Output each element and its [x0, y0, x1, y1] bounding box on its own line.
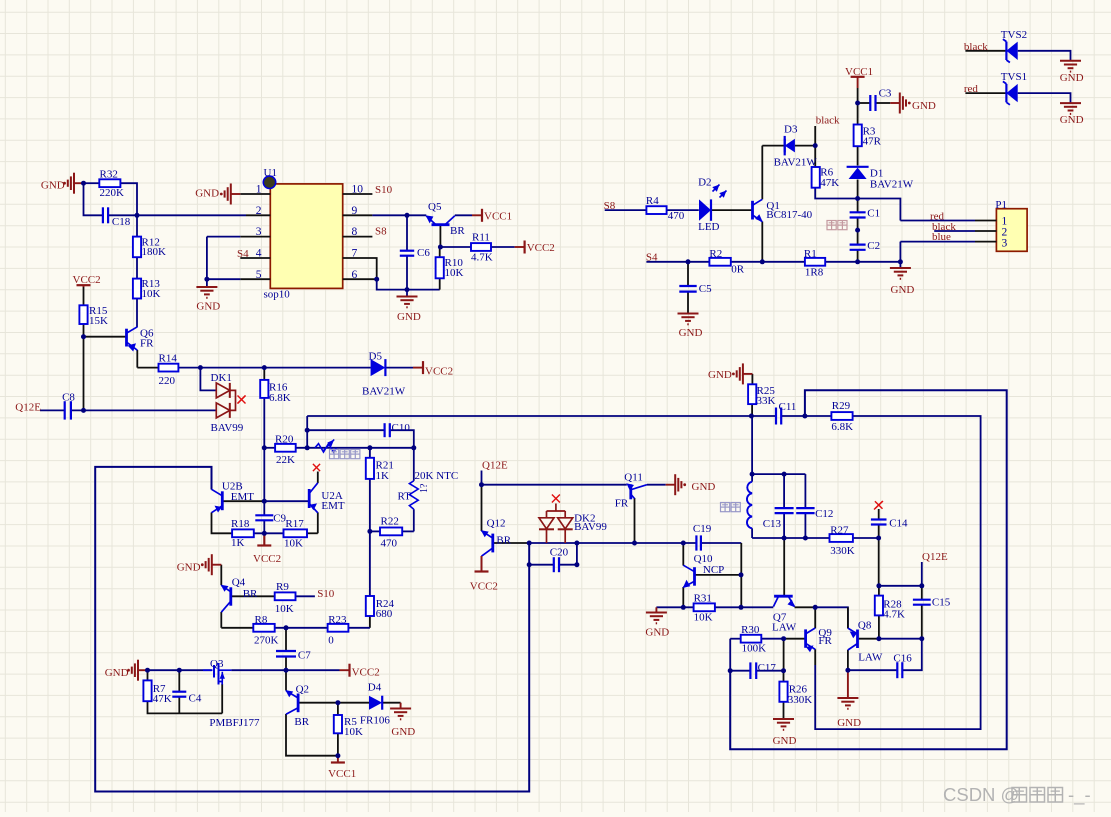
svg-text:S4: S4: [237, 248, 249, 260]
svg-text:470: 470: [381, 537, 398, 549]
svg-text:3: 3: [1002, 238, 1008, 250]
svg-text:GND: GND: [196, 301, 220, 313]
svg-text:red: red: [964, 83, 979, 95]
svg-text:C19: C19: [693, 523, 712, 535]
svg-text:0: 0: [328, 635, 334, 647]
svg-text:1K: 1K: [231, 537, 245, 549]
svg-text:R2: R2: [709, 248, 722, 260]
svg-text:GND: GND: [692, 481, 716, 493]
svg-text:GND: GND: [645, 627, 669, 639]
svg-text:C12: C12: [815, 508, 833, 520]
svg-text:D2: D2: [698, 176, 711, 188]
svg-text:BR: BR: [450, 225, 465, 237]
svg-text:Q12E: Q12E: [482, 460, 508, 472]
svg-text:180K: 180K: [142, 246, 167, 258]
svg-text:10K: 10K: [142, 288, 161, 300]
svg-text:100K: 100K: [742, 642, 767, 654]
svg-text:R17: R17: [285, 518, 304, 530]
svg-text:VCC1: VCC1: [328, 768, 356, 780]
svg-text:EMT: EMT: [321, 500, 345, 512]
svg-text:GND: GND: [397, 311, 421, 323]
svg-text:R14: R14: [159, 353, 178, 365]
svg-text:CSDN @: CSDN @: [943, 784, 1019, 805]
svg-text:R29: R29: [832, 400, 851, 412]
svg-text:sop10: sop10: [264, 289, 291, 301]
svg-text:GND: GND: [195, 188, 219, 200]
svg-text:Q12E: Q12E: [922, 551, 948, 563]
svg-text:47R: 47R: [863, 136, 882, 148]
svg-text:C11: C11: [779, 401, 797, 413]
svg-text:BR: BR: [294, 716, 309, 728]
svg-text:C4: C4: [189, 692, 202, 704]
svg-text:680: 680: [376, 608, 393, 620]
svg-text:C7: C7: [298, 650, 311, 662]
svg-text:S8: S8: [375, 225, 387, 237]
svg-text:R30: R30: [741, 624, 760, 636]
svg-text:NCP: NCP: [703, 564, 724, 576]
svg-text:220: 220: [159, 375, 176, 387]
svg-text:Q11: Q11: [624, 472, 643, 484]
svg-text:S4: S4: [646, 252, 658, 264]
svg-text:BAV21W: BAV21W: [870, 179, 914, 191]
svg-text:GND: GND: [679, 327, 703, 339]
svg-text:BC817-40: BC817-40: [766, 209, 812, 221]
svg-text:47K: 47K: [820, 177, 839, 189]
svg-text:P1: P1: [995, 199, 1007, 211]
svg-text:R1: R1: [804, 248, 817, 260]
svg-text:220K: 220K: [100, 187, 125, 199]
svg-text:FR: FR: [615, 498, 629, 510]
svg-text:C6: C6: [417, 247, 430, 259]
svg-text:10K: 10K: [275, 603, 294, 615]
svg-text:4.7K: 4.7K: [471, 251, 493, 263]
svg-text:3: 3: [256, 226, 262, 238]
svg-text:GND: GND: [1060, 114, 1084, 126]
svg-text:VCC2: VCC2: [73, 274, 101, 286]
svg-text:BAV99: BAV99: [574, 521, 607, 533]
svg-text:R11: R11: [472, 231, 490, 243]
svg-text:15K: 15K: [89, 315, 108, 327]
svg-text:20K NTC: 20K NTC: [415, 470, 459, 482]
svg-text:10K: 10K: [694, 611, 713, 623]
svg-text:2: 2: [256, 205, 262, 217]
svg-text:R9: R9: [276, 581, 289, 593]
svg-text:C2: C2: [867, 240, 880, 252]
svg-text:GND: GND: [837, 717, 861, 729]
svg-text:DK1: DK1: [211, 372, 232, 384]
svg-text:6.8K: 6.8K: [269, 392, 291, 404]
svg-text:R18: R18: [231, 518, 250, 530]
svg-text:10: 10: [352, 184, 364, 196]
svg-text:10K: 10K: [445, 267, 464, 279]
svg-text:Q4: Q4: [232, 577, 246, 589]
svg-text:C3: C3: [879, 88, 892, 100]
svg-text:GND: GND: [41, 179, 65, 191]
svg-text:9: 9: [352, 205, 358, 217]
svg-text:FR: FR: [818, 635, 832, 647]
svg-text:-_-: -_-: [1068, 784, 1091, 806]
svg-text:VCC1: VCC1: [845, 66, 873, 78]
svg-text:VCC2: VCC2: [527, 242, 555, 254]
svg-text:1?: 1?: [419, 483, 430, 493]
svg-text:LAW: LAW: [858, 652, 883, 664]
svg-text:D5: D5: [369, 351, 383, 363]
svg-text:LAW: LAW: [772, 622, 797, 634]
svg-text:470: 470: [668, 210, 685, 222]
svg-text:0R: 0R: [731, 264, 745, 276]
svg-text:VCC2: VCC2: [352, 666, 380, 678]
svg-text:Q12E: Q12E: [15, 401, 41, 413]
svg-text:VCC2: VCC2: [470, 581, 498, 593]
svg-text:GND: GND: [912, 100, 936, 112]
svg-text:BAV21W: BAV21W: [362, 386, 406, 398]
svg-text:TVS2: TVS2: [1001, 29, 1027, 41]
svg-text:BR: BR: [496, 535, 511, 547]
svg-text:C13: C13: [763, 518, 782, 530]
svg-text:C20: C20: [550, 546, 569, 558]
svg-text:R4: R4: [646, 195, 659, 207]
svg-text:TVS1: TVS1: [1001, 71, 1027, 83]
svg-text:blue: blue: [932, 231, 951, 243]
svg-text:5: 5: [256, 269, 262, 281]
svg-text:C8: C8: [62, 391, 75, 403]
svg-text:10K: 10K: [284, 538, 303, 550]
svg-text:4: 4: [256, 248, 262, 260]
svg-text:LED: LED: [698, 221, 719, 233]
svg-text:C15: C15: [932, 597, 951, 609]
svg-text:VCC2: VCC2: [425, 366, 453, 378]
svg-text:BAV99: BAV99: [211, 422, 244, 434]
svg-text:270K: 270K: [254, 635, 279, 647]
svg-text:GND: GND: [391, 726, 415, 738]
svg-text:C18: C18: [112, 216, 131, 228]
svg-text:GND: GND: [105, 667, 129, 679]
svg-text:C14: C14: [889, 518, 908, 530]
svg-text:BR: BR: [243, 588, 258, 600]
svg-text:GND: GND: [708, 369, 732, 381]
svg-text:FR: FR: [140, 337, 154, 349]
svg-text:GND: GND: [177, 562, 201, 574]
svg-text:D3: D3: [784, 123, 798, 135]
svg-text:C17: C17: [758, 662, 777, 674]
svg-text:6: 6: [352, 269, 358, 281]
svg-text:330K: 330K: [788, 694, 813, 706]
svg-text:R23: R23: [328, 614, 347, 626]
svg-text:10K: 10K: [344, 726, 363, 738]
svg-text:PMBFJ177: PMBFJ177: [209, 717, 260, 729]
svg-text:8: 8: [352, 226, 358, 238]
svg-text:S10: S10: [317, 588, 335, 600]
svg-text:BAV21W: BAV21W: [774, 157, 818, 169]
svg-text:S8: S8: [604, 200, 616, 212]
svg-text:RT: RT: [398, 491, 412, 503]
svg-text:black: black: [816, 115, 840, 127]
svg-text:C1: C1: [867, 208, 880, 220]
svg-text:1: 1: [256, 184, 262, 196]
svg-text:Q12: Q12: [487, 517, 506, 529]
svg-text:R20: R20: [275, 434, 294, 446]
svg-text:GND: GND: [773, 735, 797, 747]
svg-text:EMT: EMT: [231, 491, 255, 503]
svg-text:6.8K: 6.8K: [831, 421, 853, 433]
svg-text:R31: R31: [694, 593, 712, 605]
svg-text:black: black: [964, 41, 988, 53]
svg-text:1K: 1K: [376, 470, 390, 482]
svg-text:VCC2: VCC2: [253, 553, 281, 565]
svg-text:7: 7: [352, 248, 358, 260]
svg-text:47K: 47K: [153, 693, 172, 705]
svg-text:C16: C16: [893, 652, 912, 664]
svg-text:R8: R8: [255, 614, 268, 626]
svg-text:Q5: Q5: [428, 201, 442, 213]
svg-text:U1: U1: [264, 167, 277, 179]
svg-text:R32: R32: [100, 169, 118, 181]
svg-text:Q2: Q2: [296, 684, 309, 696]
svg-text:22K: 22K: [276, 454, 295, 466]
svg-text:R22: R22: [381, 516, 399, 528]
svg-text:C5: C5: [699, 283, 712, 295]
svg-text:4.7K: 4.7K: [883, 609, 905, 621]
svg-text:VCC1: VCC1: [484, 211, 512, 223]
svg-text:Q3: Q3: [210, 658, 224, 670]
svg-text:330K: 330K: [830, 545, 855, 557]
svg-text:S10: S10: [375, 184, 393, 196]
svg-text:GND: GND: [1060, 72, 1084, 84]
svg-text:FR106: FR106: [360, 714, 390, 726]
svg-text:1R8: 1R8: [805, 267, 824, 279]
svg-text:Q8: Q8: [858, 620, 872, 632]
svg-text:R27: R27: [830, 525, 849, 537]
svg-text:D4: D4: [368, 682, 382, 694]
svg-text:33K: 33K: [757, 395, 776, 407]
svg-text:GND: GND: [891, 284, 915, 296]
svg-text:C10: C10: [392, 422, 411, 434]
